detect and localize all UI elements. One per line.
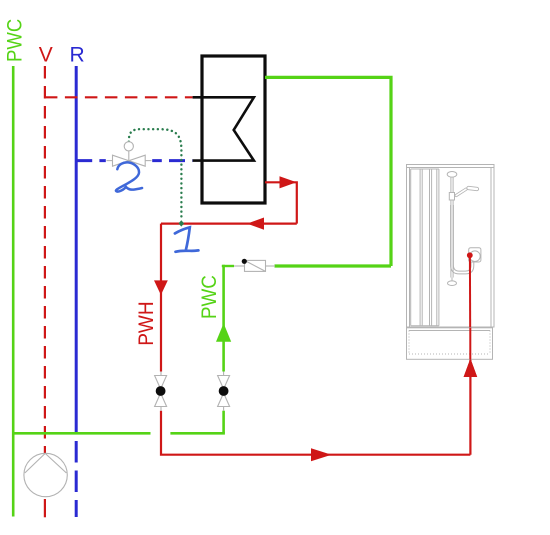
- pipe PWC left stub at check valve (green): [222, 265, 234, 267]
- shower hose (gray tube): [452, 205, 472, 273]
- shutoff valve on PWC (gray bowtie vertical): [218, 372, 230, 411]
- arrow PWH up at shower redrawn over tray: [464, 359, 478, 378]
- folding door panels: [411, 168, 439, 170]
- shower cabin: [407, 165, 495, 328]
- hand shower (head and handle): [456, 188, 477, 196]
- valve handle dot PWH (black): [156, 386, 166, 396]
- pipe V red dash below pump: [44, 499, 46, 517]
- svg-text:V: V: [39, 44, 53, 67]
- svg-text:PWH: PWH: [135, 301, 158, 345]
- pipe R branch to heater (blue dashed horizontal): [76, 159, 192, 162]
- mixer valve circle: [470, 251, 481, 262]
- arrow PWH left (red): [247, 218, 264, 230]
- pipe PWC from cold main riser to heater (green: up right side): [265, 77, 391, 266]
- pipe PWC horizontal at check valve (green right stub): [275, 264, 392, 267]
- hand shower holder on rail: [449, 193, 454, 201]
- pipe PWC riser with arrow (green vertical mid): [222, 265, 225, 372]
- node 1 junction diamond (dark green): [179, 220, 185, 226]
- valve 2 on return line (two-way valve, gray bowtie): [106, 155, 152, 167]
- pipe PWH up into shower (red vertical right): [469, 256, 471, 455]
- label 1 (handwritten blue): [175, 227, 199, 252]
- pipe PWH from heater (red, out right side of tank): [265, 182, 297, 223]
- pipe V branch to heater (red dashed horizontal): [45, 96, 193, 98]
- pipe PWH crossing tray (red, drawn over): [469, 328, 471, 360]
- circulation pump (gray circle with triangle): [24, 453, 67, 496]
- valve handle dot PWC (black): [219, 386, 229, 396]
- svg-text:PWC: PWC: [3, 19, 26, 62]
- check valve (non-return) on PWC: [234, 260, 275, 271]
- arrow PWH right (red, bottom): [311, 448, 332, 461]
- water heater / storage tank: [202, 56, 265, 203]
- pipe R heating return (blue vertical, solid upper part): [75, 66, 78, 433]
- pipe PWC bottom horizontal branch (green): [13, 432, 150, 435]
- pipe V heating flow (red dashed vertical): [44, 66, 46, 453]
- pipe PWH riser down (red vertical): [160, 224, 162, 372]
- mixer valve box: [469, 248, 481, 262]
- arrow PWC up (green): [216, 323, 231, 342]
- shower rail (double line with end caps): [447, 172, 457, 286]
- heat exchanger coil inside tank: [193, 97, 254, 160]
- pipe PWH below valve (red): [161, 411, 470, 455]
- pipe PWH horizontal (red, to left with arrow): [161, 223, 297, 225]
- pipe R heating return (blue dashed lower part): [75, 441, 78, 517]
- pipe PWC cold water main (green vertical, left): [12, 66, 15, 517]
- shutoff valve on PWH (gray bowtie vertical): [155, 372, 167, 411]
- svg-text:PWC: PWC: [198, 275, 221, 319]
- shower enclosure outer frame: [407, 165, 495, 328]
- arrow PWH up (red, at shower): [464, 359, 478, 378]
- check valve pivot dot (black): [242, 259, 247, 264]
- shower tray: [407, 328, 493, 360]
- shower enclosure inner frame lines: [407, 167, 495, 169]
- pipe PWC lower segment below valve (green): [222, 411, 225, 434]
- svg-text:R: R: [70, 44, 85, 67]
- sensor capillary dotted line (dark green): [129, 129, 182, 220]
- pipe PWH inside shower (red from mixer down): [469, 255, 471, 360]
- arrow PWH right (red, near tank): [280, 176, 297, 188]
- label 2 (handwritten blue): [116, 162, 142, 191]
- arrow PWH down (red): [154, 280, 168, 295]
- mixer connection dot (red): [467, 252, 473, 258]
